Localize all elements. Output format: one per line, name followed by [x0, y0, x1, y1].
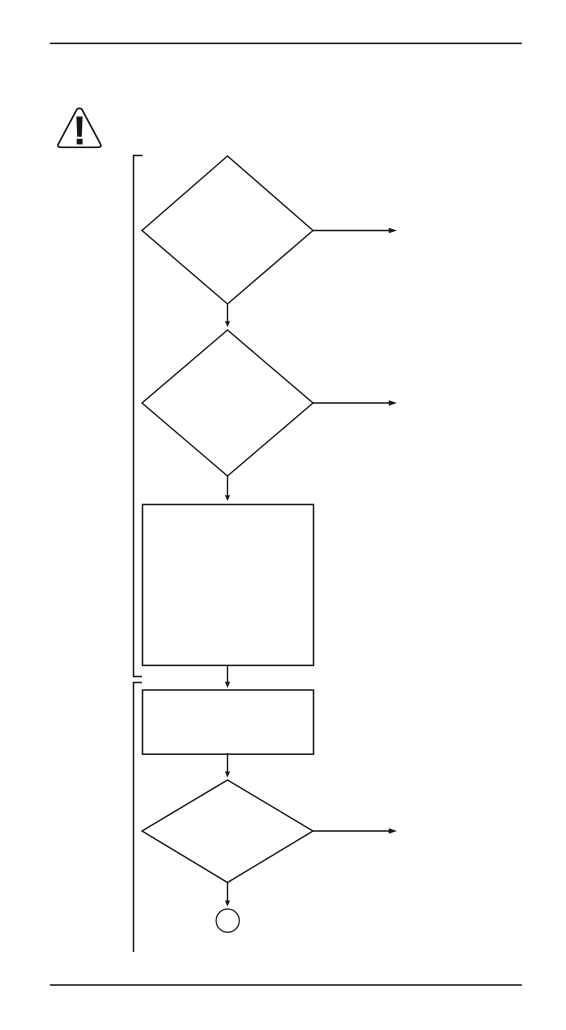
process rectangle 2	[143, 690, 314, 754]
decision diamond 3	[142, 780, 313, 883]
arrow down diamond 1 to diamond 2	[225, 304, 230, 327]
arrow down square to process rect	[225, 665, 230, 688]
warning icon exclamation dot	[77, 139, 83, 145]
header rule	[50, 42, 522, 44]
terminal circle	[216, 909, 239, 932]
bracket 2 (left vertical with top hook)	[134, 683, 143, 953]
footer rule	[50, 984, 522, 986]
decision diamond 2	[142, 330, 313, 476]
warning icon triangle outline	[58, 108, 101, 147]
arrow right from diamond 3	[313, 828, 397, 833]
arrow down diamond 2 to process square	[225, 476, 230, 501]
arrow down rect 2 to diamond 3	[225, 753, 230, 778]
arrow down diamond 3 to terminal circle	[225, 883, 230, 907]
arrow right from diamond 1	[313, 228, 397, 233]
bracket 1 (left vertical with top and bottom hooks)	[134, 156, 143, 677]
process square	[143, 505, 314, 666]
warning icon exclamation bar	[76, 117, 82, 137]
decision diamond 1	[142, 156, 313, 304]
arrow right from diamond 2	[313, 400, 397, 405]
